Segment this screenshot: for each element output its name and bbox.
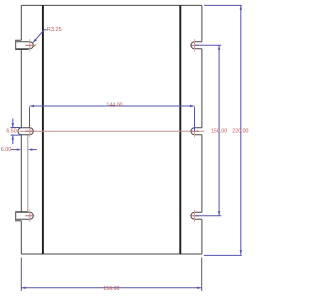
left slot top: [16, 42, 33, 49]
part bottom edge: [21, 253, 202, 255]
bend line right: [179, 5, 181, 254]
defpoint tick: [34, 44, 37, 47]
svg-text:144.00: 144.00: [106, 103, 122, 109]
leader R3.25: [33, 30, 47, 43]
right slot middle: [191, 128, 202, 135]
svg-text:220.00: 220.00: [232, 128, 248, 134]
dimension 6.00: [11, 149, 37, 151]
dimension 156.00: [21, 258, 201, 292]
left flange inner line: [27, 135, 29, 212]
left bottom tab: [16, 212, 28, 221]
part top edge: [21, 4, 202, 6]
dimension 6.50: [11, 119, 21, 145]
center cross right middle: [190, 127, 199, 136]
left top tab: [16, 40, 29, 49]
dimension 150.00: [195, 45, 221, 216]
svg-text:6.00: 6.00: [1, 147, 11, 153]
right slot bottom: [191, 212, 202, 219]
svg-text:150.00: 150.00: [211, 128, 227, 134]
part right edge segments: [201, 5, 203, 254]
bend line left: [42, 5, 44, 254]
center cross left top: [25, 41, 34, 50]
center cross right top: [190, 41, 199, 50]
left slot bottom: [16, 212, 33, 219]
dimension 220.00: [204, 5, 242, 255]
svg-text:156.00: 156.00: [103, 286, 119, 292]
right slot top: [191, 42, 202, 49]
part left edge segments: [20, 5, 22, 254]
centerline through middle slots: [20, 130, 205, 132]
center cross right bottom: [190, 212, 199, 221]
center cross left bottom: [25, 212, 34, 221]
dimension 144.00: [30, 106, 195, 131]
left slot middle: [18, 128, 33, 135]
center cross left middle: [25, 127, 34, 136]
svg-text:R3.25: R3.25: [47, 27, 62, 33]
svg-text:6.50: 6.50: [6, 129, 16, 135]
